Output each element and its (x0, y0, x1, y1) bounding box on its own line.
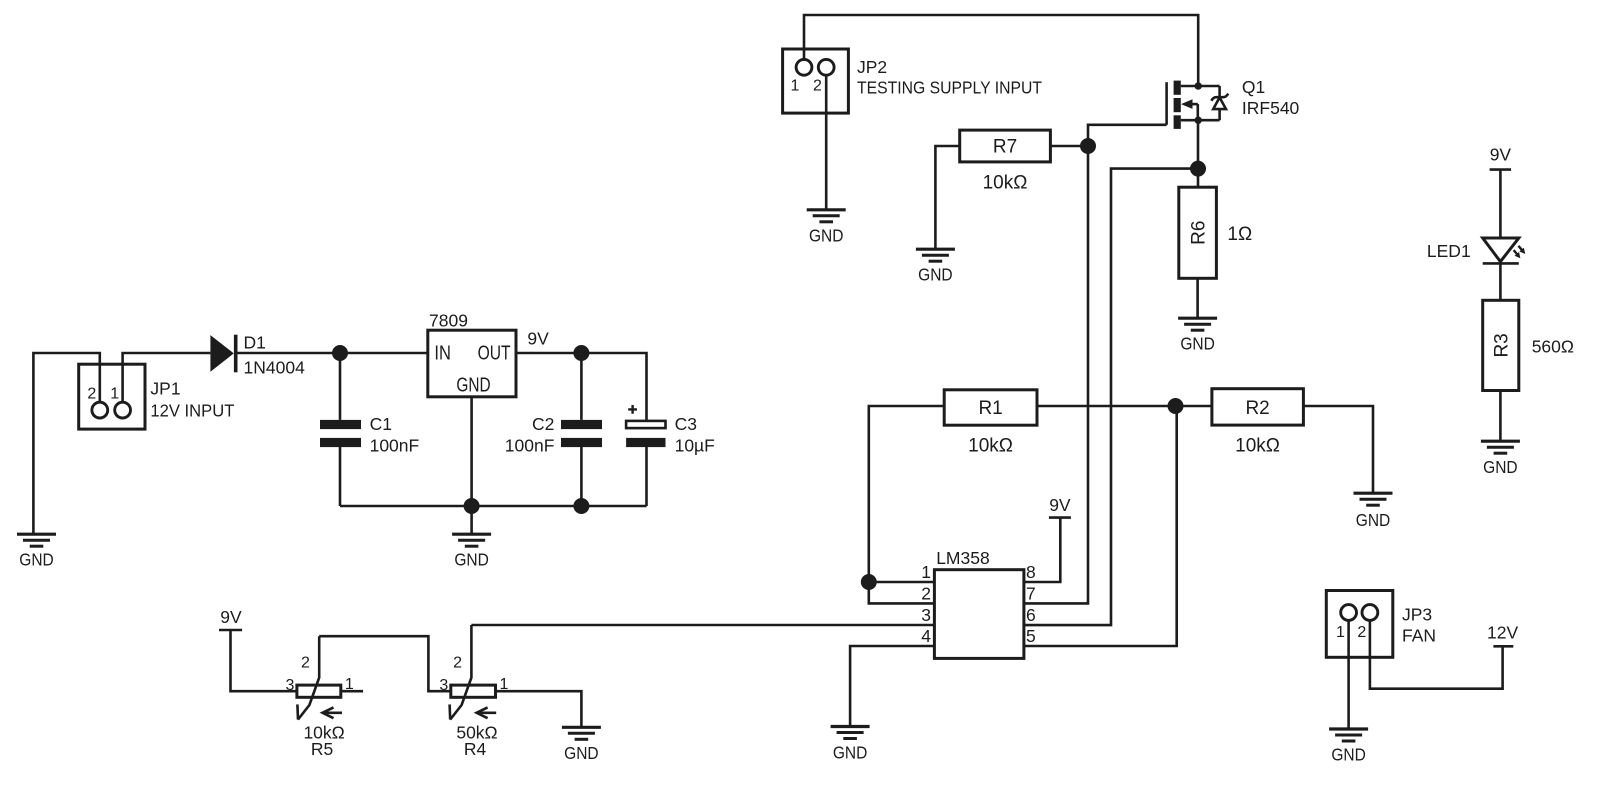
svg-text:9V: 9V (1490, 145, 1512, 165)
wire JP3 pin1 to GND (1347, 620, 1350, 728)
wire C3 bottom lead (645, 447, 648, 506)
svg-text:7809: 7809 (429, 311, 468, 331)
wire JP1 pin2 to GND (33, 353, 99, 533)
svg-text:JP3: JP3 (1402, 605, 1432, 625)
svg-text:JP2: JP2 (857, 57, 887, 77)
ground (LM358 pin4) (831, 727, 870, 739)
node source sense junction (1190, 161, 1206, 177)
svg-text:R7: R7 (993, 137, 1017, 158)
node Q1 drain junction (1195, 82, 1202, 89)
wire 9V to R5 pin3 (231, 630, 297, 691)
node D1/C1 junction (332, 345, 348, 361)
wire gate net to LM358 pin7 (1024, 125, 1167, 604)
svg-text:10kΩ: 10kΩ (983, 173, 1028, 194)
wire R2 right to GND (1303, 406, 1373, 492)
resistor R1 (944, 390, 1037, 457)
wire R7 left to GND (935, 146, 959, 248)
ground (JP3) (1329, 729, 1368, 741)
wire R5 pin1 stub (341, 690, 363, 693)
wire 7809 OUT to C3 (516, 353, 647, 421)
wire R4 pin1 to GND (496, 691, 582, 726)
svg-text:R4: R4 (464, 739, 487, 759)
node ground rail GND junction (464, 498, 480, 514)
svg-text:3: 3 (439, 677, 448, 694)
power 9V (pin8) (1049, 516, 1071, 519)
wire LM358 pin3 to R4 wiper (471, 624, 934, 627)
svg-text:9V: 9V (1049, 495, 1071, 515)
svg-text:3: 3 (921, 605, 931, 625)
node pins 1-2 junction (861, 574, 877, 590)
wire C2 bottom lead (580, 447, 583, 506)
regulator U1 7809 (428, 311, 516, 397)
svg-text:2: 2 (921, 583, 931, 603)
wire LM358 pin1 (869, 581, 935, 584)
svg-text:Q1: Q1 (1242, 77, 1265, 97)
svg-text:R1: R1 (978, 398, 1002, 419)
wire Q1 source to R6 (1197, 120, 1200, 187)
svg-text:GND: GND (833, 743, 868, 763)
svg-text:GND: GND (1331, 745, 1366, 765)
svg-text:GND: GND (19, 550, 54, 570)
svg-text:IRF540: IRF540 (1242, 98, 1300, 118)
svg-text:10kΩ: 10kΩ (1235, 436, 1280, 457)
resistor R6 (1179, 187, 1252, 278)
svg-text:GND: GND (456, 374, 490, 396)
svg-text:R3: R3 (1492, 333, 1513, 357)
svg-text:2: 2 (87, 386, 96, 403)
transistor Q1 IRF540 (1167, 77, 1300, 129)
svg-text:6: 6 (1026, 605, 1036, 625)
svg-text:R5: R5 (311, 739, 333, 759)
wire 7809 GND pin (470, 397, 473, 506)
wire C2 top lead (580, 353, 583, 420)
op-amp U2 LM358 (921, 548, 1035, 658)
svg-text:8: 8 (1026, 562, 1036, 582)
wire R1 left to LM358 pins 1,2 (869, 406, 944, 603)
svg-text:9V: 9V (220, 607, 242, 627)
svg-text:5: 5 (1026, 626, 1036, 646)
svg-text:JP1: JP1 (150, 378, 180, 398)
svg-text:GND: GND (1356, 510, 1391, 530)
node R1/R2/pin5 junction (1168, 398, 1184, 414)
svg-text:2: 2 (453, 655, 462, 672)
svg-text:C3: C3 (675, 414, 697, 434)
svg-text:FAN: FAN (1402, 626, 1436, 646)
svg-text:OUT: OUT (478, 343, 511, 365)
svg-text:12V INPUT: 12V INPUT (150, 400, 234, 420)
diode D1 1N4004 (210, 333, 305, 378)
wire R3 to GND (1499, 391, 1502, 441)
wire top rail JP2 to Q1 drain (804, 15, 1198, 86)
svg-text:1N4004: 1N4004 (244, 358, 306, 378)
svg-text:2: 2 (301, 655, 310, 672)
ground (7809) (452, 534, 491, 546)
wire GND stub (470, 506, 473, 533)
svg-text:10µF: 10µF (675, 436, 715, 456)
wire C1 bottom lead (339, 447, 342, 506)
wire LM358 pin5 to R1/R2 node (1024, 406, 1177, 646)
wire R7 right to gate node (1050, 145, 1088, 148)
svg-text:GND: GND (809, 226, 844, 246)
ground (JP1) (17, 534, 56, 546)
node C2 top junction (573, 345, 589, 361)
ground (R4) (562, 727, 601, 739)
svg-text:GND: GND (454, 550, 489, 570)
svg-text:GND: GND (1483, 457, 1518, 477)
svg-text:1: 1 (110, 386, 119, 403)
node Q1 source junction (1195, 117, 1202, 124)
power 12V (JP3) (1493, 645, 1513, 648)
connector JP3 (1326, 591, 1436, 658)
wire JP2 pin2 to GND (825, 75, 828, 209)
potentiometer R5 (286, 636, 354, 759)
resistor R2 (1212, 389, 1304, 457)
svg-text:GND: GND (918, 265, 953, 285)
resistor R7 (960, 130, 1051, 193)
svg-text:1: 1 (791, 77, 800, 94)
svg-text:R2: R2 (1245, 398, 1269, 419)
svg-text:C2: C2 (532, 414, 554, 434)
svg-text:GND: GND (564, 743, 599, 763)
ground (R7) (916, 249, 955, 261)
svg-text:1Ω: 1Ω (1227, 224, 1252, 245)
svg-text:1: 1 (921, 562, 931, 582)
wire LED1 cathode to R3 (1499, 263, 1502, 300)
svg-text:D1: D1 (244, 333, 266, 353)
wire R5 wiper to R4 pin3 (319, 636, 451, 691)
svg-text:2: 2 (1357, 624, 1366, 641)
capacitor C3 electrolytic (626, 405, 715, 456)
wire R1 right to R2 left (1037, 405, 1212, 408)
svg-text:100nF: 100nF (370, 436, 420, 456)
capacitor C2 (505, 414, 602, 456)
potentiometer R4 (439, 625, 508, 759)
ground (JP2) (807, 210, 846, 222)
capacitor C1 (320, 414, 419, 456)
node R7/gate junction (1080, 138, 1096, 154)
svg-text:R6: R6 (1188, 221, 1209, 245)
ground (R2) (1354, 493, 1393, 505)
ground (R6) (1178, 318, 1217, 330)
wire source net to LM358 pin6 (1024, 169, 1198, 625)
svg-text:TESTING SUPPLY INPUT: TESTING SUPPLY INPUT (857, 78, 1042, 98)
wire LM358 pin8 to 9V (1024, 518, 1060, 582)
ground (R3) (1481, 441, 1520, 453)
svg-text:3: 3 (286, 677, 295, 694)
svg-text:100nF: 100nF (505, 436, 555, 456)
wire LM358 pin4 to GND (850, 646, 934, 725)
wire D1 cathode to 7809 IN (238, 352, 428, 355)
wire 9V to LED1 anode (1499, 170, 1502, 238)
svg-text:GND: GND (1180, 334, 1215, 354)
svg-text:LM358: LM358 (936, 548, 990, 568)
svg-text:IN: IN (434, 343, 451, 365)
wire C1 top lead (339, 353, 342, 420)
svg-text:10kΩ: 10kΩ (968, 436, 1013, 457)
svg-text:4: 4 (921, 626, 931, 646)
svg-text:1: 1 (1336, 624, 1345, 641)
svg-text:9V: 9V (527, 329, 549, 349)
connector JP2 (783, 49, 1043, 113)
svg-text:7: 7 (1026, 583, 1036, 603)
LED LED1 (1427, 238, 1528, 263)
resistor R3 (1483, 300, 1574, 390)
svg-text:2: 2 (813, 77, 822, 94)
wire JP1 pin1 to D1 anode (123, 353, 211, 403)
svg-text:560Ω: 560Ω (1532, 337, 1574, 357)
node C2 bottom junction (573, 498, 589, 514)
svg-text:12V: 12V (1487, 623, 1518, 643)
svg-text:C1: C1 (370, 414, 392, 434)
wire R6 to GND (1196, 278, 1199, 317)
wire ground rail under 7809 (340, 505, 647, 508)
connector JP1 (79, 364, 235, 429)
wire JP3 pin2 to 12V (1370, 620, 1503, 689)
svg-text:LED1: LED1 (1427, 241, 1471, 261)
